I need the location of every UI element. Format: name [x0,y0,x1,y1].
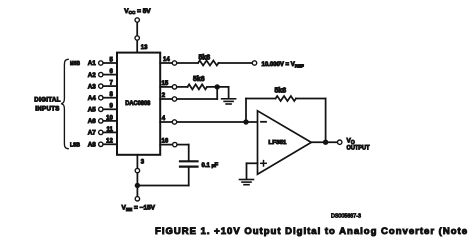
svg-text:DAC0808: DAC0808 [125,100,151,107]
svg-text:A5: A5 [88,107,97,114]
svg-text:11: 11 [106,127,113,133]
svg-text:MSB: MSB [70,61,80,67]
svg-text:10: 10 [106,115,113,121]
svg-text:13: 13 [141,45,148,51]
svg-text:10.000V = VREF: 10.000V = VREF [262,62,304,68]
svg-text:5k6: 5k6 [193,76,205,83]
svg-text:5k6: 5k6 [199,55,211,62]
svg-text:DS005687-3: DS005687-3 [331,214,361,220]
svg-text:A3: A3 [88,83,97,90]
svg-text:A6: A6 [88,118,97,125]
svg-text:A8: A8 [88,142,97,149]
svg-text:14: 14 [163,57,170,63]
svg-text:FIGURE 1. +10V Output Digital: FIGURE 1. +10V Output Digital to Analog … [155,226,467,237]
svg-text:15: 15 [162,81,169,87]
svg-text:LSB: LSB [70,143,80,149]
svg-text:VCC = 5V: VCC = 5V [124,8,151,15]
svg-text:OUTPUT: OUTPUT [347,145,370,151]
svg-text:DIGITAL: DIGITAL [34,97,60,104]
svg-text:A2: A2 [88,72,97,79]
svg-text:5k6: 5k6 [275,88,287,95]
svg-text:INPUTS: INPUTS [35,106,60,113]
svg-text:A7: A7 [88,130,97,137]
svg-text:12: 12 [106,139,113,145]
svg-text:16: 16 [162,139,169,145]
svg-text:LF351: LF351 [268,140,287,146]
svg-text:0.1 μF: 0.1 μF [202,163,219,169]
svg-text:A4: A4 [88,95,97,102]
svg-text:A1: A1 [88,60,97,67]
